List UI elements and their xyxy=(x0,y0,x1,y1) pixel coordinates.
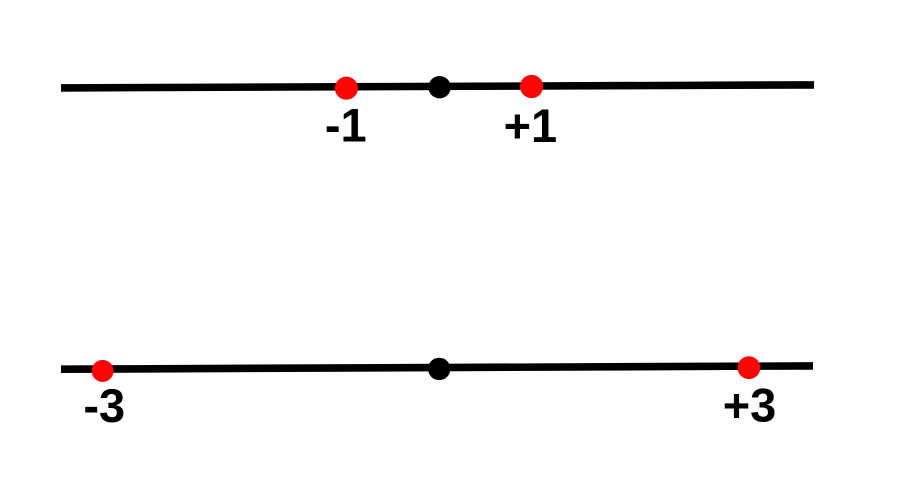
svg-text:-1: -1 xyxy=(325,99,367,152)
svg-text:-3: -3 xyxy=(83,379,125,432)
svg-text:+1: +1 xyxy=(504,99,558,152)
svg-text:+3: +3 xyxy=(723,379,777,432)
